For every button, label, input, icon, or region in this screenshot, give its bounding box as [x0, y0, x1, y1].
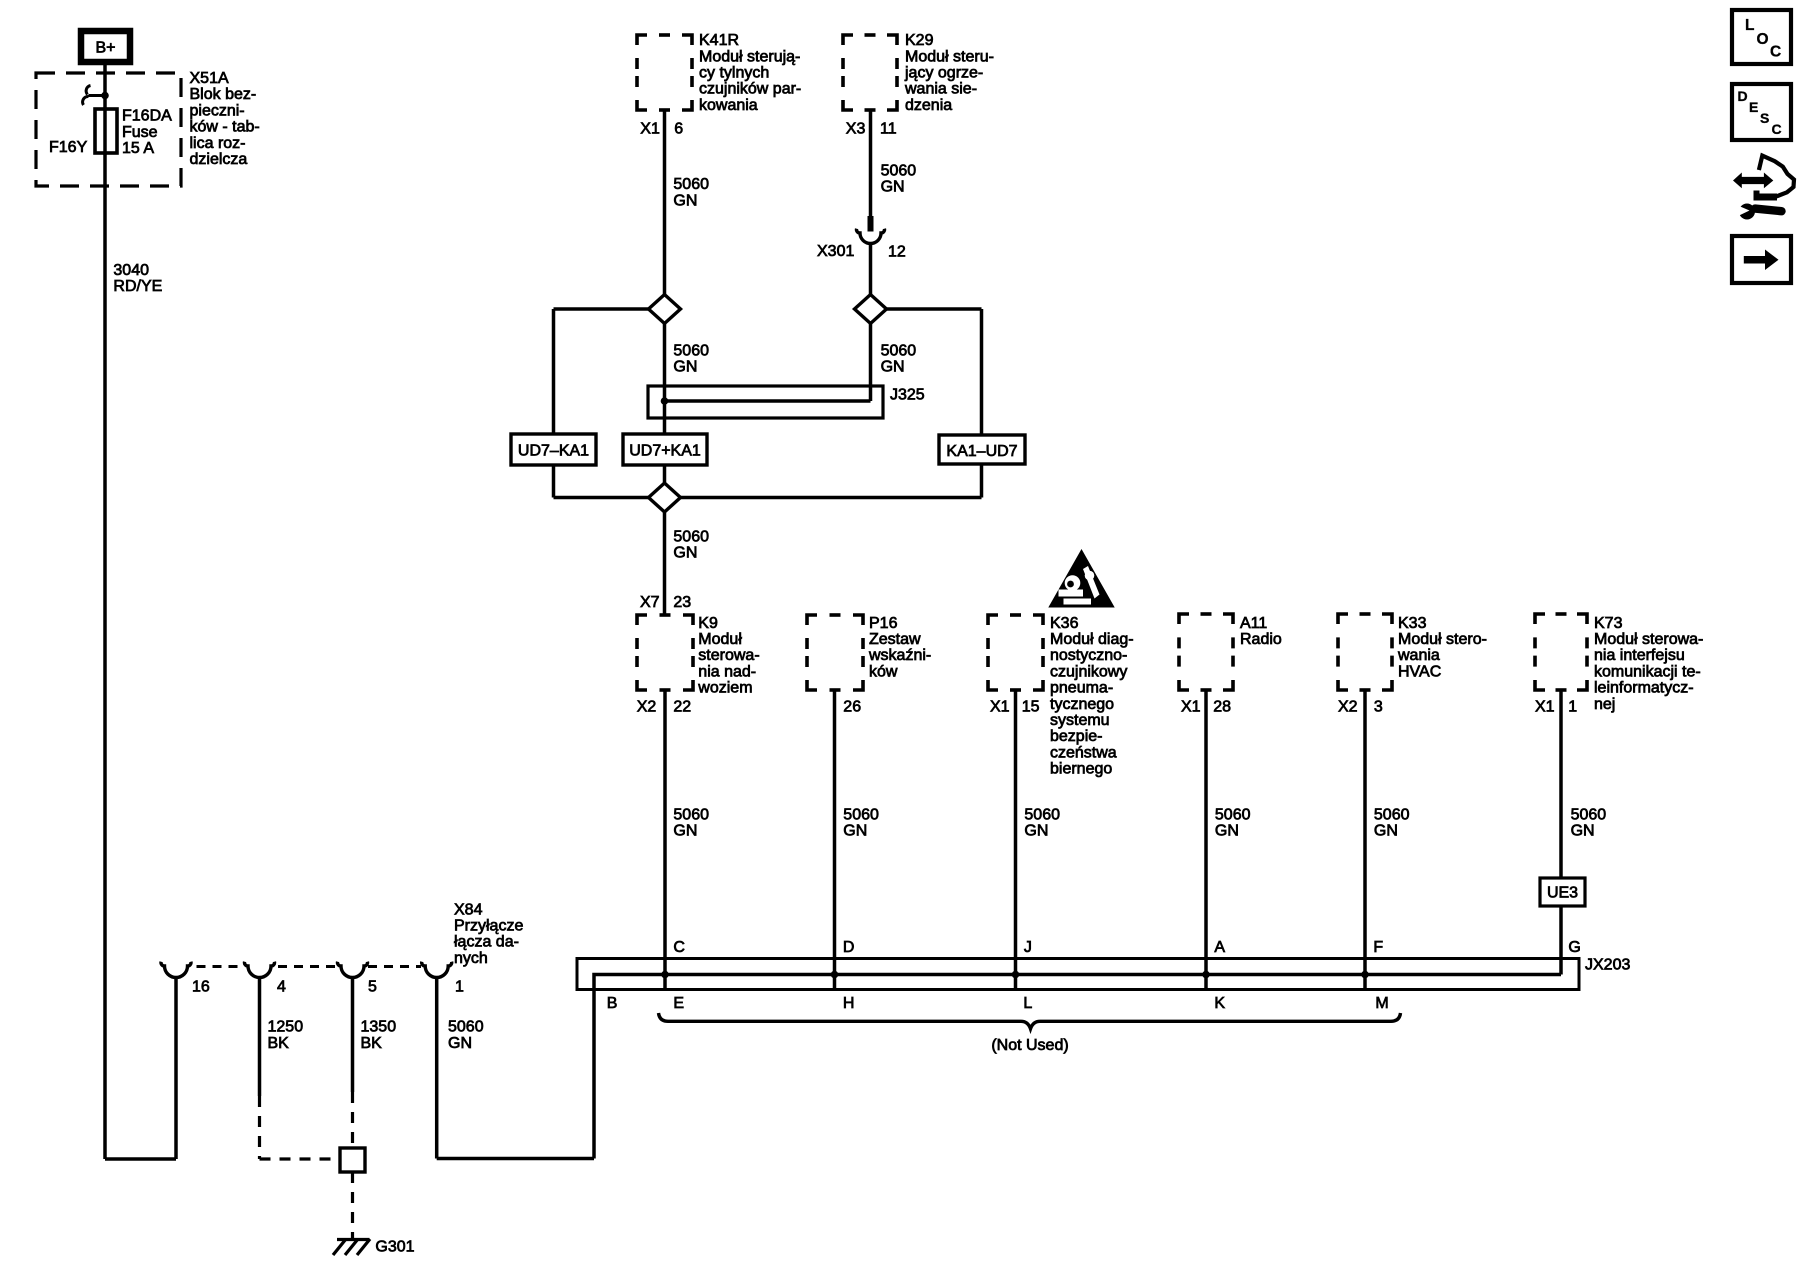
option label box UE3	[1540, 878, 1585, 906]
wire run to JX203 pin B	[437, 1157, 594, 1161]
battery feed symbol B+	[81, 31, 130, 62]
svg-text:12: 12	[888, 243, 906, 260]
svg-text:15: 15	[1022, 698, 1040, 715]
module K36 dashed box	[988, 615, 1043, 690]
svg-text:28: 28	[1213, 698, 1231, 715]
airbag warning triangle	[1050, 551, 1113, 607]
svg-text:26: 26	[843, 698, 861, 715]
svg-text:J325: J325	[890, 386, 925, 403]
svg-text:4: 4	[277, 978, 286, 995]
svg-text:C: C	[673, 939, 685, 956]
svg-text:X2: X2	[1338, 698, 1358, 715]
wire 5060 GN to K9 pin 23	[663, 512, 667, 615]
legend icon forward arrow box	[1732, 236, 1791, 283]
svg-text:K: K	[1214, 995, 1225, 1012]
svg-text:D: D	[843, 939, 855, 956]
svg-text:UE3: UE3	[1547, 884, 1578, 901]
data link label box UD7+KA1	[623, 434, 707, 465]
wire UE3 to JX203 pin G	[1559, 906, 1563, 975]
data link label box KA1-UD7	[939, 435, 1025, 464]
svg-text:M: M	[1375, 995, 1388, 1012]
wire KA1-UD7 branch vertical	[980, 309, 984, 435]
legend icon: two-way arrow with wrench (electrical schematic reference)	[1733, 156, 1794, 220]
svg-text:G: G	[1568, 939, 1580, 956]
wire 5060 GN from K73 pin 1 to UE3	[1559, 690, 1563, 878]
svg-text:(Not Used): (Not Used)	[991, 1037, 1068, 1054]
svg-text:X1: X1	[1535, 698, 1555, 715]
lower splice diamond	[649, 483, 681, 512]
svg-text:X1: X1	[1181, 698, 1201, 715]
fuse F16DA element	[95, 109, 117, 153]
wire 5060 GN from K9 pin 22 to JX203 pin C	[663, 690, 667, 990]
svg-text:UD7–KA1: UD7–KA1	[518, 442, 589, 459]
wire below KA1-UD7	[980, 464, 984, 498]
svg-text:1: 1	[1568, 698, 1577, 715]
svg-text:X301: X301	[817, 243, 854, 260]
svg-text:JX203: JX203	[1585, 956, 1630, 973]
terminal symbol in fuse block	[83, 86, 105, 106]
splice pack J325 outline	[648, 386, 883, 418]
wire 5060 GN from X84 pin 1 down	[435, 978, 439, 1159]
svg-text:X7: X7	[640, 594, 660, 611]
dashed wire to ground G301	[351, 1172, 354, 1240]
svg-text:B: B	[607, 995, 618, 1012]
wire 1350 BK solid part	[351, 978, 355, 1093]
svg-text:G301: G301	[375, 1238, 414, 1255]
svg-text:A: A	[1214, 939, 1225, 956]
svg-text:UD7+KA1: UD7+KA1	[629, 442, 701, 459]
wire X84 pin 16 down	[174, 978, 178, 1160]
wire 1250 BK solid part	[258, 978, 262, 1097]
svg-text:11: 11	[880, 120, 897, 137]
svg-text:L: L	[1023, 995, 1032, 1012]
splice wire inside J325	[665, 399, 871, 403]
svg-text:3: 3	[1374, 698, 1383, 715]
ground symbol G301	[333, 1239, 370, 1255]
wire B+ to fuse F16DA	[103, 65, 107, 155]
svg-text:1: 1	[455, 978, 464, 995]
connector cup X84 pin 4	[244, 962, 274, 978]
wire UD7-KA1 branch vertical	[552, 309, 556, 434]
svg-text:X1: X1	[990, 698, 1010, 715]
svg-text:J: J	[1024, 939, 1032, 956]
svg-text:B+: B+	[95, 39, 115, 56]
wire below X301	[869, 244, 873, 295]
module K29 dashed box	[843, 35, 897, 110]
svg-text:23: 23	[673, 594, 691, 611]
wire 5060 GN from K36 pin 15 to JX203 pin J	[1014, 690, 1018, 990]
wire below UD7+KA1	[663, 465, 667, 483]
bus wire inside JX203	[594, 975, 1561, 1159]
svg-text:F: F	[1373, 939, 1383, 956]
junction dot pin C	[661, 971, 669, 979]
data link label box UD7-KA1	[511, 434, 596, 465]
wire 3040 RD/YE bottom run to X84 pin 16	[105, 1157, 176, 1161]
module A11 dashed box	[1179, 614, 1233, 690]
svg-text:X3: X3	[846, 120, 866, 137]
module K73 dashed box	[1535, 614, 1587, 690]
wire to UD7-KA1 branch	[554, 307, 649, 311]
forward arrow glyph	[1744, 250, 1779, 271]
wire 1350 BK dashed part	[351, 1092, 354, 1148]
junction dot in J325	[661, 397, 669, 405]
wire 5060 GN from A11 pin 28 to JX203 pin A	[1204, 690, 1208, 990]
module K9 dashed box	[637, 615, 693, 690]
legend icon DESC box	[1732, 84, 1791, 140]
fuse block X51A dashed outline	[36, 73, 181, 186]
svg-text:5: 5	[368, 978, 377, 995]
connector cup X84 pin 5	[337, 962, 367, 978]
svg-text:F16Y: F16Y	[49, 139, 88, 156]
inline connector X301 pin 12	[868, 216, 874, 232]
svg-text:6: 6	[674, 120, 683, 137]
svg-text:X2: X2	[637, 698, 657, 715]
svg-text:H: H	[843, 995, 855, 1012]
splice diamond on K41R leg	[649, 295, 681, 324]
dashed run to ground splice	[260, 1157, 341, 1160]
wire 5060 GN from K29 pin 11	[869, 110, 873, 217]
wire 3040 RD/YE vertical	[103, 153, 107, 1159]
wire to KA1-UD7 branch	[887, 307, 982, 311]
junction dot pin F	[1361, 971, 1369, 979]
connector cup X84 pin 16	[161, 962, 191, 978]
X84 dashed connector line	[197, 965, 245, 968]
wire 1250 BK dashed part	[258, 1096, 261, 1159]
svg-text:E: E	[673, 995, 684, 1012]
svg-text:22: 22	[673, 698, 691, 715]
(Not Used) brace	[659, 1013, 1401, 1029]
wire 5060 GN from K33 pin 3 to JX203 pin F	[1363, 690, 1367, 990]
module K41R dashed box	[637, 35, 692, 110]
wire 5060 GN through splice J325	[663, 324, 667, 435]
module P16 dashed box	[807, 615, 863, 690]
junction dot pin A	[1202, 971, 1210, 979]
wire to lower splice diamond (left)	[554, 496, 649, 500]
connector cup X84 pin 1	[422, 962, 452, 978]
svg-text:16: 16	[192, 978, 210, 995]
junction dot pin D	[831, 971, 839, 979]
data link connector JX203 outline	[577, 959, 1579, 990]
wire to lower splice diamond (right)	[681, 496, 982, 500]
ground splice box	[340, 1148, 365, 1172]
wire 5060 GN from K41R pin 6	[663, 110, 667, 295]
module K33 dashed box	[1338, 614, 1392, 690]
wire 5060 GN from P16 pin 26 to JX203 pin D	[833, 690, 837, 990]
wire from K29 diamond into J325	[869, 324, 873, 402]
wire below UD7-KA1	[552, 465, 556, 498]
splice diamond on K29 leg	[855, 295, 887, 324]
junction dot pin J	[1012, 971, 1020, 979]
junction dot at fuse feed	[101, 92, 109, 100]
svg-text:KA1–UD7: KA1–UD7	[946, 443, 1017, 460]
svg-text:X1: X1	[640, 120, 660, 137]
legend icon LOC box	[1732, 10, 1791, 64]
